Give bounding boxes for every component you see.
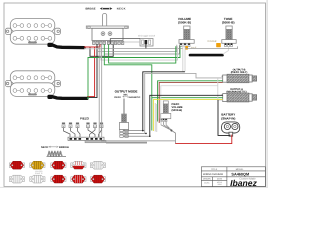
wire red trio to jack J1: [159, 82, 223, 123]
output jack J1 OUTPUT-B labels: [231, 69, 248, 75]
volume pot VR1: [178, 17, 194, 47]
wire green trio to jack J1: [158, 81, 223, 122]
wire green y63.1: [109, 44, 176, 63]
svg-text:(500K-B): (500K-B): [178, 20, 191, 24]
wire green switch to jack J2: [104, 44, 152, 130]
output mode switch SW2: [119, 99, 128, 138]
connector white 1: [90, 161, 105, 169]
piezo volume pot VR3 label: [172, 103, 183, 112]
svg-text:BRIDGE: BRIDGE: [59, 146, 69, 149]
svg-text:(PIEZO ONLY): (PIEZO ONLY): [231, 71, 248, 74]
svg-text:TITLE: TITLE: [211, 168, 217, 171]
svg-text:OUTPUT MODE: OUTPUT MODE: [115, 90, 138, 94]
svg-text:DRAWN: DRAWN: [203, 178, 211, 181]
wire green bridge to volume: [87, 46, 180, 98]
cable bridge: [47, 95, 87, 99]
wire gray y54: [104, 45, 179, 54]
svg-text:DATE: DATE: [217, 178, 223, 181]
svg-text:MODEL: MODEL: [236, 168, 245, 171]
svg-text:AKIRA: AKIRA: [204, 182, 210, 185]
ground bar between pots: [190, 54, 223, 57]
connector white 2: [9, 175, 24, 183]
wire gray y51.5: [98, 45, 177, 52]
wire black to jack J2: [150, 95, 223, 136]
wire black volume bus: [143, 72, 185, 131]
connector yellow: [30, 161, 45, 169]
wires piezo strip to right: [101, 141, 175, 143]
wire white trio: [161, 86, 218, 125]
legend neck-bridge: [41, 146, 69, 157]
wire black U below switch: [90, 44, 113, 56]
wire gray long y49 to tone: [96, 46, 238, 48]
svg-text:SA460QM: SA460QM: [231, 172, 249, 176]
svg-text:NECK: NECK: [41, 146, 48, 149]
wire white tone loop: [223, 47, 229, 55]
piezo strip connector: [68, 137, 106, 143]
svg-text:Ibanez: Ibanez: [230, 178, 257, 188]
wire green corner to jack J2: [152, 97, 223, 99]
wire gray to jack J1: [145, 73, 223, 133]
wires piezo connector to strip: [64, 128, 102, 137]
battery BT1 label: [221, 112, 235, 120]
pickup bridge: [6, 71, 61, 97]
wire pale switch to mini toggle: [116, 42, 140, 44]
output jack J2: [222, 93, 257, 102]
svg-text:(500K-B): (500K-B): [222, 20, 235, 24]
wire pale jack link: [218, 78, 223, 100]
svg-text:POINT 'B': POINT 'B': [35, 172, 43, 175]
piezo volume pot VR3: [160, 101, 171, 122]
svg-text:PIEZO: PIEZO: [114, 96, 121, 99]
capacitor C2 0.022uF: [208, 40, 221, 47]
svg-text:(500K-B): (500K-B): [172, 109, 183, 112]
wire red bridge to switch: [87, 47, 95, 97]
pickup neck: [6, 19, 61, 45]
connector red 4: [71, 175, 86, 183]
connector half red: [71, 161, 86, 169]
wire pale neck y60.1: [84, 46, 178, 60]
junction piezo pot: [171, 130, 173, 132]
cable neck: [47, 43, 84, 48]
svg-text:dimarzio: dimarzio: [28, 41, 37, 44]
connector red 1: [9, 161, 24, 169]
capacitor C1 .04uF: [184, 46, 196, 50]
wire gray switch down to piezo strip: [99, 44, 102, 137]
switch SW1 label: [86, 7, 126, 10]
wire white volume pot down pair: [183, 46, 185, 71]
tone pot VR2: [222, 17, 236, 47]
output mode switch SW2 labels: [114, 90, 141, 99]
wire black jack J2 to battery: [218, 100, 230, 135]
wires output mode switch stubs: [123, 131, 150, 137]
piezo connector lugs: [62, 125, 103, 128]
svg-text:(SNAP IN): (SNAP IN): [221, 116, 235, 120]
title block: [201, 167, 265, 187]
svg-text:WIRING DIAGRAM: WIRING DIAGRAM: [203, 173, 223, 176]
battery BT1: [222, 122, 240, 136]
svg-text:MAGNETIC: MAGNETIC: [129, 96, 141, 99]
wire red battery to piezo junction: [175, 135, 231, 144]
connector red 5: [90, 175, 105, 183]
svg-text:0.022uF: 0.022uF: [208, 40, 218, 43]
connector white 3: [30, 175, 45, 183]
output jack J2 OUTPUT-A labels: [226, 88, 246, 94]
svg-text:NECK: NECK: [117, 8, 126, 11]
svg-text:.04uF: .04uF: [190, 46, 197, 49]
wire white bundle filler: [155, 103, 157, 132]
wire black bridge to switch: [87, 44, 97, 97]
mini toggle switch (coil tap): [138, 34, 156, 49]
svg-text:PIEZO: PIEZO: [80, 117, 90, 121]
svg-text:mini toggle switch: mini toggle switch: [138, 34, 156, 37]
wire dark switch to mini toggle: [110, 39, 140, 44]
junction dots output mode: [142, 130, 151, 137]
switch SW1 5-way: [86, 14, 128, 45]
svg-text:BRIDGE: BRIDGE: [86, 8, 96, 11]
piezo connector pin labels: [62, 123, 103, 124]
connector red 2: [51, 161, 66, 169]
output jack J1: [222, 74, 257, 82]
svg-text:2004: 2004: [218, 183, 222, 186]
svg-text:dimarzio: dimarzio: [28, 93, 37, 96]
wire yellow to jack J2: [153, 100, 222, 131]
wire red switch feed: [84, 44, 100, 47]
wires piezo pot lugs to junction: [161, 122, 173, 132]
connector red 3: [51, 175, 66, 183]
